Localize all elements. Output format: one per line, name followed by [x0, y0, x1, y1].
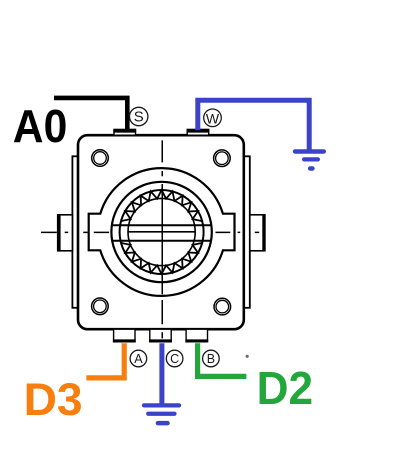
pin label B — [203, 350, 220, 367]
terminal B — [185, 329, 208, 342]
svg-text:A0: A0 — [13, 100, 68, 152]
shaft slot bottom edge — [112, 240, 210, 242]
wire: B to D2 (green) — [198, 343, 247, 376]
encoder body — [78, 135, 244, 329]
mounting hole top-right — [214, 150, 231, 167]
svg-text:D2: D2 — [257, 362, 314, 414]
svg-text:W: W — [206, 110, 220, 126]
ground symbol top-right — [293, 149, 326, 171]
wire: S to A0 (black) — [54, 98, 127, 131]
terminal A — [113, 329, 136, 342]
pin label C — [166, 350, 183, 367]
knurl teeth top — [121, 190, 202, 221]
ground symbol bottom — [142, 403, 181, 425]
terminal S (switch pin) — [113, 129, 136, 135]
svg-text:A: A — [134, 352, 143, 366]
wire: A to D3 (orange) — [86, 343, 124, 378]
left mounting tab — [58, 214, 73, 251]
horizontal centerline left — [41, 231, 109, 233]
flange plate — [72, 156, 249, 307]
horizontal centerline right — [216, 231, 260, 233]
knurl inner circle — [128, 198, 195, 265]
vertical centerline — [161, 140, 163, 324]
svg-text:B: B — [207, 352, 215, 366]
pin label A — [130, 350, 147, 367]
pin label S — [130, 107, 148, 125]
svg-text:S: S — [134, 109, 144, 126]
stray dot artifact — [246, 355, 249, 358]
wire: W to ground (blue) — [198, 100, 309, 150]
bushing outline with ears — [89, 168, 235, 296]
svg-text:C: C — [170, 352, 179, 366]
mounting hole bottom-right — [214, 298, 231, 315]
terminal W (switch pin) — [187, 129, 210, 135]
centerline dash inside terminal C — [161, 332, 163, 338]
svg-text:D3: D3 — [24, 374, 83, 425]
shaft flat line — [128, 231, 195, 233]
pin label W — [204, 109, 222, 127]
shaft slot top edge — [112, 224, 211, 226]
mounting hole bottom-left — [92, 298, 109, 315]
wire: C to ground (blue) — [159, 343, 164, 403]
ring circle — [111, 182, 211, 282]
terminal C (common) — [149, 329, 172, 342]
knurl teeth bottom — [121, 243, 202, 274]
right mounting tab — [250, 214, 265, 251]
mounting hole top-left — [92, 150, 109, 167]
knurl outer circle — [120, 190, 204, 274]
